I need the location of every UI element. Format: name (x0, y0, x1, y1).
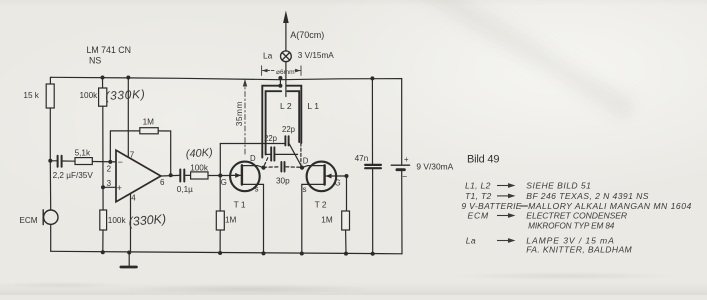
node ground rail 47n (371, 252, 375, 256)
node input junction (48, 159, 52, 163)
wire 100k upper to pin3 node (102, 106, 104, 187)
svg-text:BF 246 TEXAS, 2 N 4391 NS: BF 246 TEXAS, 2 N 4391 NS (526, 191, 649, 201)
coil L1 outer former (262, 86, 301, 158)
wire left column top (rail corner down to 15k) (50, 77, 51, 84)
svg-text:G: G (335, 178, 341, 187)
dimension 35mm (243, 79, 247, 155)
node T2 drain (300, 166, 304, 170)
node rail L1 stub top (278, 76, 282, 80)
wire dashed L1 bottom left diagonal (264, 158, 268, 167)
resistor 100k output (191, 172, 208, 179)
transistor T2 (302, 162, 337, 254)
op-amp U1 triangle (116, 150, 161, 202)
node ground rail T1 bias (218, 251, 222, 255)
svg-text:3 V/15mA: 3 V/15mA (298, 51, 334, 60)
wire oscillator feed riser (220, 144, 285, 176)
svg-text:D: D (250, 154, 256, 163)
wire 22p right diagonal to T2 drain (289, 144, 302, 168)
svg-text:LM 741 CN: LM 741 CN (87, 45, 132, 55)
wire pin7 supply (127, 78, 129, 158)
node output junction (169, 173, 173, 177)
wire 100k to gate node (208, 175, 230, 177)
resistor 15k (46, 84, 54, 108)
wire T2 gate to 1M (337, 175, 347, 177)
paper shading diagonal streak (370, 0, 670, 176)
capacitor 22p left plates (271, 147, 274, 160)
svg-text:⌀6mm: ⌀6mm (276, 69, 295, 76)
capacitor 2,2uF plates (58, 156, 62, 167)
svg-text:(40K): (40K) (185, 147, 213, 161)
node L1 stub bottom (278, 84, 282, 88)
svg-text:D: D (303, 156, 309, 165)
wire pin3 node to op-amp (103, 186, 116, 188)
svg-text:La: La (263, 51, 273, 61)
antenna arrow (283, 11, 289, 52)
node T2 gate junction (345, 174, 349, 178)
svg-text:SIEHE BILD 51: SIEHE BILD 51 (526, 181, 591, 191)
node ground rail T2 source (300, 252, 304, 256)
coil L2 inner former (266, 91, 300, 154)
wire rail to battery (401, 79, 403, 165)
svg-text:0,1µ: 0,1µ (177, 185, 193, 194)
svg-text:La: La (466, 236, 476, 246)
legend arrows (497, 183, 528, 243)
svg-text:3: 3 (107, 179, 112, 188)
svg-text:+: + (117, 183, 122, 193)
svg-text:MIKROFON TYP EM 84: MIKROFON TYP EM 84 (528, 222, 615, 231)
wire pin3 node to 100k lower (102, 187, 104, 210)
wire rail to 100k upper (102, 78, 104, 89)
svg-text:6: 6 (160, 178, 165, 187)
svg-text:MALLORY ALKALI MANGAN MN 1604: MALLORY ALKALI MANGAN MN 1604 (528, 201, 692, 211)
node T1 drain (261, 166, 265, 170)
svg-text:L 1: L 1 (307, 101, 319, 111)
node T1 gate junction (218, 174, 222, 178)
svg-text:ECM: ECM (468, 211, 490, 221)
wire gate to 1M T2 bias (346, 176, 348, 211)
wire pin4 to ground (130, 194, 132, 253)
svg-text:100k: 100k (108, 216, 127, 225)
node ground rail divider (101, 250, 105, 254)
battery 9V plates (391, 165, 409, 170)
wire dashed drain-drain link (264, 166, 281, 169)
svg-text:s: s (255, 185, 259, 194)
wire 1M T2 to ground rail (345, 230, 347, 254)
handwritten annotations (105, 87, 213, 229)
wire input node to ECM (49, 161, 51, 210)
svg-text:1M: 1M (143, 117, 155, 126)
svg-text:1M: 1M (225, 216, 237, 225)
ground symbol (121, 253, 136, 268)
legend text (461, 181, 691, 255)
wire 1M to output node (158, 131, 171, 175)
wire bottom ground rail (51, 251, 402, 254)
svg-text:NS: NS (89, 55, 101, 65)
wire dashed L1 bottom right (300, 143, 302, 166)
wire 15k to input node (49, 108, 51, 161)
svg-text:9 V/30mA: 9 V/30mA (416, 162, 453, 172)
svg-text:4: 4 (131, 194, 136, 203)
wire 22p left connections (266, 153, 271, 155)
resistor 1M T1 bias (216, 211, 224, 230)
svg-text:s: s (303, 185, 307, 194)
svg-text:100k: 100k (80, 91, 99, 100)
svg-text:30p: 30p (276, 176, 290, 185)
resistor 5,1k (75, 158, 92, 165)
wire top supply rail (52, 77, 402, 79)
svg-text:Bild 49: Bild 49 (467, 154, 499, 166)
svg-text:35mm: 35mm (234, 101, 244, 126)
resistor 1M feedback (140, 128, 158, 134)
dimension 6mm (262, 66, 301, 76)
node rail junction pin7 (126, 76, 130, 80)
wire 0,1u to 100k (185, 174, 190, 176)
lamp La (281, 51, 292, 62)
svg-text:ELECTRET CONDENSER: ELECTRET CONDENSER (526, 211, 627, 221)
svg-text:G: G (221, 178, 227, 187)
svg-text:L1, L2: L1, L2 (465, 181, 491, 191)
svg-text:T 2: T 2 (315, 200, 327, 210)
svg-text:T 1: T 1 (234, 200, 246, 210)
wire 1M bias to ground rail (219, 230, 221, 253)
wire rail to 47n (371, 78, 373, 164)
wire 100k lower to ground rail (102, 230, 104, 252)
wire op-amp output (161, 174, 180, 177)
svg-text:A(70cm): A(70cm) (290, 30, 324, 40)
wire L1 supply stub (279, 78, 281, 86)
wire 2,2uF to 5,1k (50, 160, 56, 162)
svg-text:FA. KNITTER, BALDHAM: FA. KNITTER, BALDHAM (526, 245, 632, 255)
svg-text:−: − (402, 172, 407, 182)
node ground rail pin4 (127, 251, 131, 255)
node ground rail T1 source (262, 251, 266, 255)
capacitor 22p right plates (285, 136, 288, 145)
node ground rail T2 bias (344, 252, 348, 256)
node rail junction divider (101, 76, 105, 80)
svg-text:7: 7 (130, 151, 135, 160)
wire 47n to ground rail (372, 168, 374, 254)
wire 5,1k to pin2 (92, 161, 116, 163)
svg-text:T1, T2: T1, T2 (465, 191, 492, 201)
svg-text:2: 2 (107, 165, 112, 174)
wire battery to ground rail (401, 170, 403, 254)
node pin3 junction (101, 185, 105, 189)
svg-text:2,2 µF/35V: 2,2 µF/35V (53, 171, 94, 180)
svg-text:15 k: 15 k (23, 91, 39, 100)
node rail 47n junction (370, 76, 374, 80)
svg-text:100k: 100k (190, 164, 209, 173)
svg-text:22p: 22p (282, 125, 296, 134)
capacitor 47n plates (365, 165, 381, 168)
capacitor 0,1u plates (180, 170, 184, 182)
transistor T1 (230, 162, 263, 254)
svg-text:9 V-BATTERIE: 9 V-BATTERIE (461, 201, 521, 211)
svg-text:−: − (118, 157, 123, 167)
node pin2 feedback junction (108, 160, 112, 164)
wire ECM to ground rail (50, 224, 52, 251)
svg-text:5,1k: 5,1k (75, 149, 91, 158)
svg-text:(330K): (330K) (105, 87, 146, 103)
resistor 100k lower divider (100, 210, 107, 230)
svg-text:47n: 47n (355, 154, 369, 163)
svg-text:(330K): (330K) (128, 212, 167, 229)
svg-text:L 2: L 2 (280, 101, 292, 111)
microphone ECM (43, 210, 58, 225)
wire feedback riser (110, 131, 140, 162)
svg-text:1M: 1M (321, 216, 333, 225)
resistor 1M T2 bias (342, 211, 350, 230)
wire gate node to 1M bias (219, 176, 221, 212)
svg-text:+: + (404, 155, 409, 164)
capacitor 30p plates (281, 162, 284, 172)
resistor 100k upper divider (99, 88, 107, 106)
svg-text:ECM: ECM (19, 216, 37, 225)
printed labels (19, 30, 453, 225)
wire lamp to L2 (285, 62, 287, 97)
svg-text:22p: 22p (264, 134, 278, 143)
